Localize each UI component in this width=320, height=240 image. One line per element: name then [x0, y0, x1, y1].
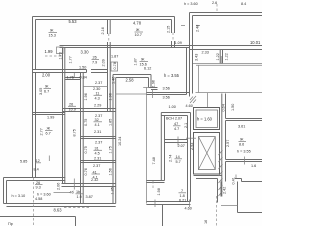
- svg-text:2.74: 2.74: [169, 155, 173, 162]
- svg-text:ВСН 2.07: ВСН 2.07: [166, 116, 182, 120]
- svg-text:1.8: 1.8: [180, 194, 185, 198]
- svg-text:16: 16: [204, 220, 208, 224]
- right block top wall y12.5/16: [190, 13, 263, 16]
- svg-text:8.4: 8.4: [241, 2, 246, 6]
- svg-text:7.9: 7.9: [92, 61, 97, 65]
- svg-text:3.61: 3.61: [238, 125, 245, 129]
- svg-text:2.16: 2.16: [101, 27, 105, 34]
- svg-text:5.7: 5.7: [176, 160, 181, 164]
- svg-text:Пр: Пр: [8, 222, 13, 226]
- right block left wall x189/192.5: [190, 13, 193, 94]
- svg-text:1.22: 1.22: [216, 53, 220, 60]
- corridor long line 7.48: [143, 88, 149, 204]
- svg-text:0.41: 0.41: [232, 177, 236, 184]
- svg-text:Ж: Ж: [50, 29, 54, 33]
- room 2.58 right wall: [149, 75, 158, 90]
- gap arrows top: [181, 25, 200, 27]
- svg-text:9.3: 9.3: [36, 186, 41, 190]
- shaft wall hatch: [219, 150, 223, 196]
- svg-text:2.31: 2.31: [94, 130, 101, 134]
- riser line above machine box: [207, 93, 209, 108]
- room label 6.7 lower: [45, 127, 53, 136]
- svg-text:1.35: 1.35: [111, 187, 115, 194]
- hatch below left-block right wall: [190, 96, 196, 103]
- svg-text:h = 3.55: h = 3.55: [164, 73, 180, 78]
- step lines bottom right: [235, 175, 262, 182]
- svg-text:1.96: 1.96: [84, 93, 88, 100]
- threshold line corridor: [116, 93, 147, 95]
- wall stack left x80.5/83: [81, 73, 84, 204]
- room label 7.9: [92, 56, 100, 65]
- lower building line: [0, 217, 76, 227]
- dashed door big room: [45, 55, 62, 57]
- svg-text:1.75: 1.75: [108, 146, 112, 153]
- svg-text:0.78: 0.78: [113, 62, 117, 69]
- svg-text:1.50: 1.50: [231, 104, 235, 111]
- svg-text:8.4: 8.4: [34, 167, 39, 171]
- room label 4.7: [173, 122, 181, 131]
- svg-text:4.7: 4.7: [174, 127, 179, 131]
- svg-text:10.01: 10.01: [250, 40, 261, 45]
- shaft right wall x222/225.5: [222, 94, 226, 197]
- svg-text:0.75: 0.75: [84, 119, 88, 126]
- svg-text:1.96: 1.96: [108, 93, 112, 100]
- svg-text:5.53: 5.53: [69, 19, 78, 24]
- wall left column right x62/65: [63, 48, 65, 184]
- svg-text:0.76: 0.76: [84, 168, 88, 175]
- svg-text:2.32: 2.32: [91, 178, 98, 182]
- svg-text:6.21: 6.21: [179, 198, 186, 202]
- shaft bottom wall: [194, 176, 222, 179]
- svg-text:10.7: 10.7: [135, 33, 142, 37]
- svg-text:0.64: 0.64: [222, 104, 226, 111]
- svg-text:2.06: 2.06: [57, 183, 61, 190]
- svg-text:1.46: 1.46: [112, 77, 116, 84]
- dashed leader 8.63: [64, 207, 90, 209]
- svg-text:1.73: 1.73: [59, 52, 63, 59]
- stack dims section4: [91, 164, 100, 182]
- center block bottom room left wall: [146, 181, 164, 183]
- door jamb room1: [57, 47, 64, 54]
- compartment divider x220/222.3: [220, 50, 222, 64]
- svg-text:10.24: 10.24: [118, 137, 122, 146]
- svg-text:4.3: 4.3: [95, 97, 100, 101]
- svg-text:3.56: 3.56: [163, 87, 170, 91]
- room label 10.9: [68, 103, 76, 112]
- right block wall y46/49.3: [190, 46, 263, 50]
- svg-text:Ж: Ж: [45, 85, 49, 89]
- rect corridor right block: [196, 65, 263, 92]
- svg-text:2.15: 2.15: [167, 26, 171, 33]
- room label 15.6: [140, 58, 152, 71]
- svg-text:3.05: 3.05: [39, 88, 43, 95]
- svg-text:h = 3.60: h = 3.60: [37, 193, 51, 197]
- svg-text:2.37: 2.37: [93, 164, 100, 168]
- svg-text:1.87: 1.87: [111, 55, 118, 59]
- tick on bottom wall: [73, 179, 75, 190]
- svg-text:2.77: 2.77: [40, 128, 44, 135]
- svg-text:2.33: 2.33: [202, 51, 209, 55]
- stack dims section3: [94, 141, 103, 161]
- door dashed room2: [172, 33, 174, 42]
- wall room2 right x171.5/174.5: [172, 17, 175, 48]
- svg-text:7.48: 7.48: [152, 157, 156, 164]
- svg-text:Ж: Ж: [141, 58, 145, 62]
- svg-text:1.76: 1.76: [67, 76, 74, 80]
- left block right wall x186.5/189.5: [187, 46, 190, 97]
- wall stub y69.5 x91-107.5: [91, 70, 108, 73]
- svg-text:0.75: 0.75: [84, 146, 88, 153]
- dashed door center block: [152, 181, 154, 190]
- svg-text:2.37: 2.37: [95, 141, 102, 145]
- wall stack C y152.5/155.5: [81, 161, 116, 163]
- machine room box h=1.60: [194, 108, 220, 130]
- svg-text:5.85: 5.85: [20, 159, 27, 163]
- wall below shaft x217.5/221: [218, 179, 222, 203]
- dashed bottom right x216.5: [216, 196, 218, 226]
- svg-text:15.3: 15.3: [49, 34, 56, 38]
- tick 3.56: [152, 90, 154, 99]
- wall stack D y178.5/181.5: [62, 184, 116, 187]
- svg-text:8.75: 8.75: [72, 129, 76, 136]
- tick shaft left: [186, 137, 196, 139]
- svg-text:Ж: Ж: [136, 28, 140, 32]
- svg-text:2.48: 2.48: [196, 25, 200, 32]
- room label 8.6: [239, 138, 247, 147]
- svg-text:1.09: 1.09: [175, 41, 182, 45]
- svg-text:2.07: 2.07: [178, 144, 185, 148]
- center block inner wall y139.5/142: [165, 140, 188, 143]
- dim 1.2: [35, 159, 41, 163]
- wall small room y77.5/79.5: [65, 78, 81, 80]
- svg-text:2.30: 2.30: [93, 87, 100, 91]
- svg-text:2.1: 2.1: [184, 123, 188, 128]
- svg-text:h = 3.55: h = 3.55: [237, 150, 251, 154]
- svg-text:32: 32: [95, 118, 99, 122]
- svg-text:8.63: 8.63: [54, 208, 63, 213]
- wall stack right x110.5/113.5: [108, 48, 111, 112]
- room label 15.3: [49, 29, 58, 38]
- svg-text:1.22: 1.22: [225, 53, 229, 60]
- svg-text:h = 1.60: h = 1.60: [197, 117, 213, 122]
- svg-text:2.29: 2.29: [94, 104, 101, 108]
- svg-text:4.60: 4.60: [186, 104, 193, 108]
- svg-text:2.6: 2.6: [212, 1, 217, 5]
- wall stub y205.5: [221, 205, 238, 207]
- dashed top right x217: [216, 4, 218, 13]
- svg-text:14: 14: [176, 155, 180, 159]
- svg-text:Ж: Ж: [47, 127, 51, 131]
- svg-text:2.58: 2.58: [126, 78, 135, 83]
- leader h=3.60: [54, 192, 71, 194]
- svg-text:1.99: 1.99: [47, 116, 54, 120]
- svg-text:2.57: 2.57: [226, 140, 230, 147]
- wall left outer upper: [33, 17, 36, 178]
- wall stack B y131/134: [81, 137, 116, 139]
- elevator shaft box with X: [194, 133, 220, 175]
- tick 1.6 dim: [244, 157, 246, 165]
- svg-text:h = 3.60: h = 3.60: [184, 2, 198, 6]
- closet 0.78 box: [111, 62, 118, 71]
- wall stack A y106.5/109.5 full to left wall: [63, 109, 116, 112]
- wall y92.5/95 x146-189.5: [146, 93, 189, 95]
- tick 2.07: [177, 137, 179, 146]
- wall y69.5/73 left part: [33, 70, 67, 73]
- svg-text:6.12: 6.12: [144, 66, 151, 70]
- room label 10.7: [135, 28, 144, 37]
- bottom right corner walls: [238, 182, 263, 213]
- svg-text:3.43: 3.43: [195, 54, 199, 61]
- svg-text:2.37: 2.37: [95, 81, 102, 85]
- svg-text:26: 26: [93, 56, 97, 60]
- wall room1 right (x 107.5/110): [108, 20, 111, 48]
- svg-text:1.00: 1.00: [169, 105, 176, 109]
- room label 5.7: [175, 155, 183, 164]
- svg-text:Ж: Ж: [240, 138, 244, 142]
- svg-text:2.09: 2.09: [102, 59, 106, 66]
- svg-text:12: 12: [36, 159, 40, 163]
- tick 5.85: [48, 156, 50, 162]
- wall bottom-left extension: [4, 178, 66, 204]
- svg-text:6.7: 6.7: [46, 132, 51, 136]
- svg-text:26: 26: [69, 103, 73, 107]
- svg-text:1.85: 1.85: [108, 119, 112, 126]
- svg-text:1b: 1b: [76, 190, 80, 194]
- door dashed room1: [108, 34, 110, 43]
- svg-text:1.6: 1.6: [251, 164, 256, 168]
- stack line y84: [83, 86, 107, 88]
- svg-text:h = 3.10: h = 3.10: [12, 194, 26, 198]
- room 2.58 top wall y74.5/77: [113, 75, 151, 78]
- bottom vertical x162: [162, 205, 164, 227]
- svg-text:6.7: 6.7: [44, 90, 49, 94]
- center block bottom wall + 6.21 dim: [146, 200, 190, 208]
- svg-text:2.00: 2.00: [42, 73, 51, 78]
- room label 9.3: [35, 181, 43, 190]
- wall A left seg: [33, 113, 65, 115]
- wall right y118/120.5: [226, 119, 263, 121]
- door divider small room: [73, 73, 75, 78]
- room label 6.7 upper: [44, 85, 52, 94]
- svg-text:4.58: 4.58: [35, 197, 42, 201]
- svg-text:1.56: 1.56: [108, 168, 112, 175]
- svg-text:4.1: 4.1: [95, 123, 100, 127]
- wall stack right lower x113/115.7: [113, 75, 116, 204]
- svg-text:31: 31: [95, 147, 99, 151]
- stack dims section2: [94, 114, 103, 134]
- counter bar 1.50: [66, 70, 87, 73]
- stack dims section1: [93, 81, 102, 108]
- svg-text:8.6: 8.6: [239, 143, 244, 147]
- svg-text:7: 7: [181, 189, 183, 193]
- svg-text:4.78: 4.78: [133, 21, 142, 26]
- wall bottom outer: [4, 204, 116, 207]
- svg-text:10.9: 10.9: [69, 107, 76, 111]
- svg-text:3.87: 3.87: [86, 195, 93, 199]
- room label 1.8: [179, 189, 187, 198]
- svg-text:1.9: 1.9: [77, 195, 82, 199]
- svg-text:47: 47: [174, 122, 178, 126]
- dashed section line x33: [33, 178, 35, 227]
- svg-text:4б: 4б: [70, 191, 74, 195]
- svg-text:1.77: 1.77: [69, 56, 73, 63]
- line y63.6/64.9 full: [193, 64, 262, 66]
- svg-text:0.84: 0.84: [80, 76, 87, 80]
- center block outer walls: [161, 113, 190, 202]
- svg-text:3.30: 3.30: [81, 50, 90, 55]
- tick compartment: [220, 56, 222, 64]
- svg-text:1.99: 1.99: [45, 49, 54, 54]
- wall top outer left block: [33, 17, 175, 20]
- svg-text:2.31: 2.31: [94, 156, 101, 160]
- svg-text:4.60: 4.60: [185, 207, 192, 211]
- svg-text:4.5: 4.5: [95, 152, 100, 156]
- wall right y159.5/161.5: [226, 160, 263, 162]
- svg-text:2.42: 2.42: [223, 187, 227, 194]
- svg-text:1.50: 1.50: [79, 66, 86, 70]
- wall mid horizontal y45.5/47.5: [60, 46, 190, 48]
- svg-text:3.56: 3.56: [163, 96, 170, 100]
- svg-text:1.98: 1.98: [157, 188, 161, 195]
- svg-text:1.96: 1.96: [152, 80, 156, 87]
- svg-text:1.87: 1.87: [134, 58, 138, 65]
